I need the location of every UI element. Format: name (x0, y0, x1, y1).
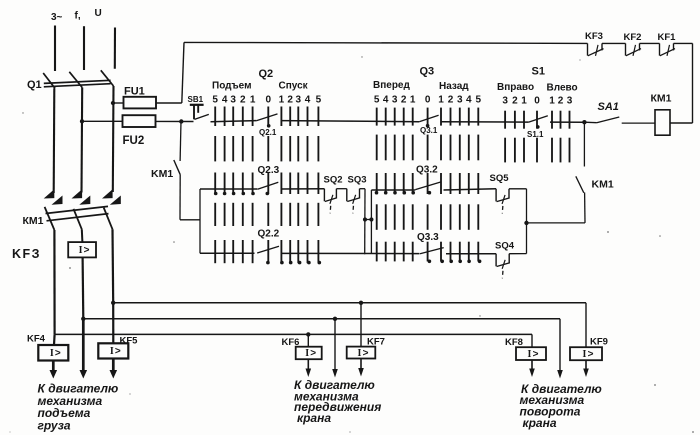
wire bus2 down to arrow (559, 319, 561, 371)
svg-text:Влево: Влево (547, 83, 578, 94)
wire KM1 aux right lower lead (584, 193, 586, 223)
svg-text:SQ3: SQ3 (348, 175, 367, 186)
arrow KF6 to travel motor (307, 359, 309, 369)
wire row1 Q2.1 to Q3.1 (281, 121, 420, 122)
svg-text:5: 5 (212, 95, 218, 106)
junction bus1 KF7 drop (359, 301, 363, 305)
wire top bus segment 2 (602, 42, 626, 44)
contactor KM1 tie bar lower (47, 214, 109, 221)
wire bus1 horizontal (113, 302, 586, 304)
controller S1 position ticks band A (504, 111, 506, 129)
wire right edge down to coil (692, 43, 694, 123)
pushbutton SB1 plunger (190, 104, 204, 106)
svg-text:4: 4 (383, 95, 389, 106)
wire pole 3 Q1 to KM1 contact (112, 86, 115, 192)
svg-text:>: > (310, 348, 316, 359)
arrow bus2 to slew motor (559, 370, 561, 372)
wire row3 Q3 to SQ4 (446, 253, 496, 255)
junction pole 3 to FU1 (111, 101, 115, 105)
svg-text:S1.1: S1.1 (527, 130, 544, 139)
contact S1.1 blade (529, 116, 548, 122)
svg-text:Q3: Q3 (420, 66, 435, 78)
wire SQ4 output to vertical (509, 253, 526, 255)
svg-text:SQ4: SQ4 (495, 241, 515, 252)
wire row2 Q3 left segment (371, 189, 415, 191)
fuse FU2 (123, 115, 156, 127)
svg-text:I: I (110, 346, 114, 357)
svg-text:4: 4 (222, 95, 228, 106)
svg-text:5: 5 (316, 95, 322, 106)
svg-text:3: 3 (502, 96, 508, 107)
svg-text:КМ1: КМ1 (651, 93, 672, 105)
svg-text:SA1: SA1 (598, 101, 619, 113)
pushbutton SB1 contact blade (195, 114, 209, 119)
wire row1 S1.1 to SA1 node (550, 121, 584, 123)
controller Q2 position ticks band B (214, 136, 216, 161)
svg-text:FU2: FU2 (123, 135, 145, 147)
contactor KM1 blade pole 1 (45, 207, 55, 230)
arrow pole 2 to hoist motor (82, 319, 85, 371)
wire controller Q3 left edge (370, 190, 372, 254)
svg-text:4: 4 (466, 95, 472, 106)
svg-text:Q3.1: Q3.1 (420, 126, 438, 135)
wire KF7 drop (360, 303, 362, 347)
svg-text:3: 3 (457, 95, 463, 106)
controller S1 position ticks band B (504, 138, 506, 163)
svg-text:4: 4 (305, 95, 311, 106)
wire row1 Q3.1 to S1.1 (441, 121, 529, 123)
wire SQ2 to SQ3 (336, 188, 346, 190)
switch Q1 blade pole 1 (43, 73, 55, 88)
wire SA1 to KM1 coil (622, 122, 655, 124)
wire bus3 horizontal (55, 333, 532, 335)
contact KF2 thermal NC (625, 43, 627, 55)
svg-text:1: 1 (521, 96, 527, 107)
arrow KF8 to slew motor (531, 360, 533, 370)
wire pole 2 into KF3 relay (81, 229, 84, 242)
arrow middle to travel motor (334, 369, 336, 370)
contact Q2.3 blade (258, 182, 279, 189)
wire FU2 to SB1 (156, 120, 194, 122)
contact KF1 thermal NC (659, 43, 661, 55)
svg-text:>: > (363, 348, 369, 359)
svg-text:3: 3 (230, 95, 236, 106)
svg-text:крана: крана (297, 411, 331, 425)
wire top bus segment 3 (640, 42, 660, 44)
wire bus3 down to KF8 (531, 334, 533, 347)
wire SQ3 output (360, 188, 366, 190)
junction control node under riser (179, 119, 183, 123)
wire node to Q3 block edge (365, 219, 371, 221)
wire supply line 2 above Q1 (83, 26, 85, 70)
svg-text:f,: f, (75, 11, 81, 22)
svg-text:КМ1: КМ1 (23, 215, 44, 227)
svg-text:>: > (588, 349, 594, 360)
contactor KM1 blade pole 3 (104, 208, 113, 230)
junction dots Q3.3 closed positions (428, 260, 432, 264)
wire KM1 aux right upper lead (583, 122, 585, 166)
wire KF6 drop (307, 334, 309, 346)
wire FU2 left lead (82, 120, 123, 122)
svg-text:KF1: KF1 (658, 32, 677, 43)
wire middle drop (334, 319, 336, 370)
wire riser to top bus (182, 42, 184, 103)
wire row3 Q2 to Q3 (282, 252, 420, 254)
wire FU1 left lead (113, 102, 124, 104)
svg-text:3~: 3~ (51, 12, 63, 23)
svg-text:2: 2 (240, 95, 246, 106)
wire bus2 horizontal (83, 318, 560, 320)
controller Q3 position ticks band C (376, 173, 378, 194)
svg-text:0: 0 (534, 96, 540, 107)
switch Q1 tie bar upper (44, 80, 111, 83)
svg-text:>: > (55, 348, 61, 359)
contact Q3.1 blade (419, 115, 438, 122)
wire row1 SB1 to Q2.1 (211, 121, 257, 122)
arrow KF9 to slew motor (585, 360, 587, 369)
wire row3 Q2 left segment (200, 252, 255, 254)
junction bus3 KF6 drop (306, 332, 310, 336)
svg-text:KM1: KM1 (151, 168, 173, 180)
svg-text:Q3.3: Q3.3 (417, 232, 439, 243)
wire KM1 aux branch from control node (179, 121, 182, 161)
svg-text:SQ2: SQ2 (324, 175, 343, 186)
contact Q3.2 blade (415, 182, 440, 190)
wire top bus segment 1 (184, 42, 588, 43)
svg-text:FU1: FU1 (124, 86, 145, 98)
svg-text:3: 3 (567, 96, 573, 107)
junction dot Q3 zero position row1 (426, 124, 430, 128)
svg-text:Вправо: Вправо (497, 82, 534, 93)
contactor KM1 main contact pole 3 (102, 189, 113, 198)
junction pole 3 bus1 (111, 301, 115, 305)
svg-text:SB1: SB1 (188, 95, 204, 104)
svg-text:S1: S1 (532, 66, 545, 78)
wire pole 2 lower (81, 257, 84, 318)
wire KM1 aux to Q2 box (179, 175, 181, 220)
wire SQ5-SQ4 vertical (526, 189, 528, 254)
svg-text:I: I (528, 349, 532, 360)
wire supply line 3 above Q1 (114, 28, 116, 69)
svg-text:5: 5 (476, 95, 482, 106)
svg-text:KF4: KF4 (27, 334, 46, 345)
wire bus1 down to KF9 (585, 303, 587, 347)
wire top bus segment 4 (674, 42, 693, 44)
controller Q2 position ticks band E (214, 240, 216, 263)
svg-text:Вперед: Вперед (373, 80, 410, 91)
svg-text:Q1: Q1 (27, 79, 42, 91)
svg-text:Подъем: Подъем (212, 81, 252, 92)
svg-text:1: 1 (279, 95, 285, 106)
svg-text:I: I (50, 348, 54, 359)
svg-text:KM1: KM1 (592, 179, 614, 191)
controller Q3 position ticks band D (376, 204, 378, 230)
arrow KF7 to travel motor (360, 359, 362, 370)
junction dots Q2.2 closed positions (266, 261, 270, 265)
contactor KM1 blade pole 2 (74, 209, 82, 229)
svg-text:Спуск: Спуск (279, 81, 309, 92)
junction dot Q2 zero position row1 (267, 124, 271, 128)
wire pole 1 lower (53, 230, 55, 334)
contact KF3 thermal NC (587, 43, 589, 55)
controller Q3 position ticks band E (376, 242, 378, 262)
contactor KM1 main contact pole 2 (72, 189, 83, 198)
contactor KM1 tie bar upper (46, 206, 109, 213)
arrow pole 1 to hoist motor (52, 361, 55, 372)
svg-text:KFЗ: KFЗ (12, 247, 41, 261)
contact Q3.3 blade (420, 248, 444, 254)
wire controller Q2 left edge (199, 189, 201, 253)
controller Q3 position ticks band B (376, 135, 378, 161)
junction bus2 middle drop (333, 317, 337, 321)
svg-text:I: I (305, 348, 309, 359)
svg-text:KF9: KF9 (590, 337, 608, 348)
wire pole 3 lower (111, 229, 114, 302)
junction node row1 to KM1 aux branch (582, 120, 586, 124)
svg-text:>: > (533, 349, 539, 360)
contact Q2.2 blade (257, 246, 279, 253)
svg-text:1: 1 (250, 95, 256, 106)
svg-text:3: 3 (392, 95, 398, 106)
junction pole 2 to FU2 (80, 119, 84, 123)
svg-text:3: 3 (296, 95, 302, 106)
switch SA1 (584, 121, 596, 124)
svg-text:>: > (115, 346, 121, 357)
svg-text:Назад: Назад (439, 81, 469, 92)
svg-text:5: 5 (374, 95, 380, 106)
svg-text:I: I (358, 348, 362, 359)
svg-text:I: I (79, 245, 83, 256)
junction SQ output node (524, 221, 528, 225)
wire pole 3 to KF5 (112, 303, 114, 344)
svg-text:1: 1 (438, 95, 444, 106)
svg-text:2: 2 (558, 96, 564, 107)
svg-text:KF3: KF3 (585, 31, 603, 42)
svg-text:I: I (583, 349, 587, 360)
svg-text:>: > (84, 245, 90, 256)
fuse FU1 (124, 97, 157, 109)
svg-text:груза: груза (38, 419, 71, 433)
wire SQ5 output to vertical (509, 188, 527, 190)
wire KM1 coil to right edge (670, 122, 693, 124)
paper specks (69, 267, 71, 269)
svg-text:2: 2 (448, 95, 454, 106)
junction dots Q2.3 closed positions (214, 192, 218, 196)
wire SQ output down to row3 (364, 189, 366, 255)
junction dots Q3.2 closed positions (375, 191, 379, 195)
svg-text:SQ5: SQ5 (490, 173, 510, 184)
svg-text:2: 2 (401, 95, 407, 106)
wire supply line 1 above Q1 (54, 26, 56, 72)
wire FU1 to riser (156, 102, 182, 104)
wire row2 Q2 to SQ2 (281, 188, 324, 190)
svg-text:Q2: Q2 (259, 68, 274, 80)
svg-text:Q2.3: Q2.3 (258, 165, 280, 176)
switch Q1 blade pole 3 (101, 70, 114, 86)
svg-text:крана: крана (523, 416, 557, 430)
wire pole 1 to KF4 (53, 334, 56, 345)
controller Q2 position ticks band C (214, 173, 216, 195)
svg-text:1: 1 (549, 96, 555, 107)
svg-text:2: 2 (512, 96, 518, 107)
controller Q2 position ticks band A (214, 107, 216, 127)
svg-text:Q3.2: Q3.2 (416, 165, 438, 176)
svg-text:Q2.1: Q2.1 (259, 128, 277, 137)
svg-text:1: 1 (410, 95, 416, 106)
svg-text:KF2: KF2 (624, 32, 642, 43)
svg-text:0: 0 (425, 95, 431, 106)
svg-text:U: U (95, 8, 102, 19)
junction pole 2 bus2 (81, 317, 85, 321)
wire pole 1 Q1 to KM1 contact (53, 88, 56, 193)
arrow pole 3 to hoist motor (112, 359, 115, 372)
wire pole 2 Q1 to KM1 contact (80, 88, 83, 193)
svg-text:0: 0 (266, 95, 272, 106)
junction dot S1 zero position row1 (536, 125, 540, 129)
controller Q2 position ticks band D (214, 203, 216, 226)
contact Q2.1 blade (256, 114, 277, 121)
controller Q3 position ticks band A (376, 108, 378, 126)
svg-text:Q2.2: Q2.2 (258, 229, 280, 240)
svg-text:2: 2 (287, 95, 293, 106)
wire row2 Q3 to SQ5 (444, 189, 497, 190)
contactor KM1 main contact pole 1 (44, 189, 55, 198)
wire row2 Q2 left segment (200, 188, 257, 190)
switch Q1 blade pole 2 (69, 72, 82, 88)
switch Q1 tie bar lower (44, 84, 111, 87)
wire node to KM1 aux right (527, 222, 586, 224)
